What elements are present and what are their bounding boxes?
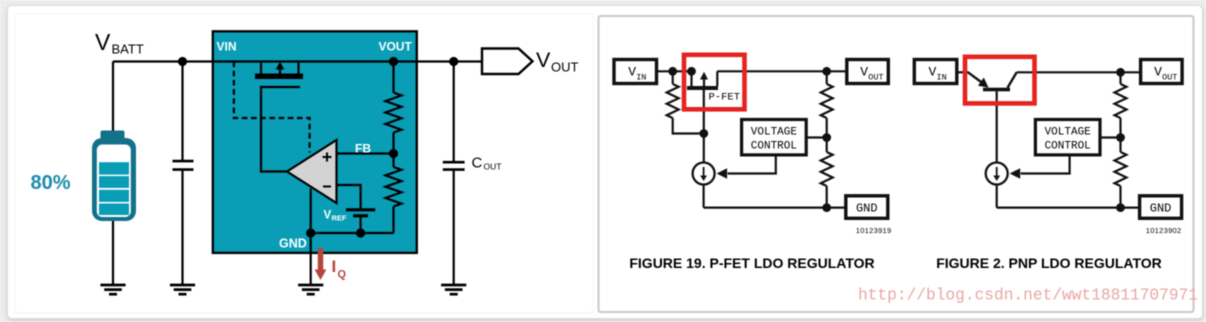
svg-text:GND: GND xyxy=(1150,202,1172,216)
svg-text:C: C xyxy=(472,155,483,172)
svg-text:OUT: OUT xyxy=(1162,73,1177,83)
svg-text:VOUT: VOUT xyxy=(378,40,412,54)
svg-text:REF: REF xyxy=(332,214,347,223)
svg-text:I: I xyxy=(332,257,337,276)
svg-text:CONTROL: CONTROL xyxy=(751,141,797,153)
svg-text:IN: IN xyxy=(937,73,947,83)
svg-text:V: V xyxy=(324,210,332,222)
svg-text:P-FET: P-FET xyxy=(709,92,741,104)
svg-text:V: V xyxy=(1154,65,1162,80)
svg-text:OUT: OUT xyxy=(868,73,883,83)
svg-text:CONTROL: CONTROL xyxy=(1045,141,1091,153)
svg-text:http://blog.csdn.net/wwt188117: http://blog.csdn.net/wwt18811707971 xyxy=(858,287,1198,305)
svg-text:V: V xyxy=(860,65,868,80)
svg-text:V: V xyxy=(628,65,636,80)
svg-text:10123919: 10123919 xyxy=(856,226,892,235)
svg-text:FB: FB xyxy=(355,142,371,156)
svg-text:80%: 80% xyxy=(31,172,71,194)
svg-text:GND: GND xyxy=(856,202,878,216)
svg-text:OUT: OUT xyxy=(484,162,502,172)
svg-text:IN: IN xyxy=(636,73,646,83)
svg-text:GND: GND xyxy=(279,237,307,251)
svg-text:V: V xyxy=(95,29,111,55)
svg-text:10123902: 10123902 xyxy=(1146,226,1182,235)
svg-text:VOLTAGE: VOLTAGE xyxy=(1045,127,1092,139)
svg-text:OUT: OUT xyxy=(551,60,579,75)
svg-text:FIGURE 2. PNP LDO REGULATOR: FIGURE 2. PNP LDO REGULATOR xyxy=(936,255,1162,271)
svg-text:FIGURE 19. P-FET LDO REGULATOR: FIGURE 19. P-FET LDO REGULATOR xyxy=(629,255,874,271)
svg-text:V: V xyxy=(536,48,551,72)
svg-text:VOLTAGE: VOLTAGE xyxy=(751,127,798,139)
svg-text:VIN: VIN xyxy=(217,40,237,54)
svg-text:BATT: BATT xyxy=(112,42,144,57)
svg-text:Q: Q xyxy=(338,269,347,281)
svg-text:V: V xyxy=(929,65,937,80)
